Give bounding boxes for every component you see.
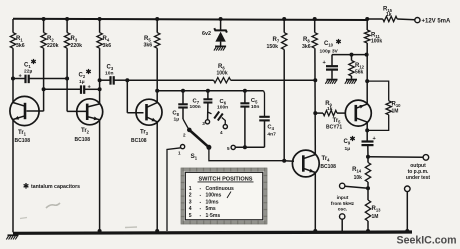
wire R7 down to Tr4 base node [283,50,285,161]
node R11/C10/R12 junction [365,53,369,57]
node C9/R14/output junction [366,155,370,159]
wire Tr1 emitter to rail [12,119,14,232]
svg-text:R13: R13 [372,206,382,213]
wire R3 down to Tr2 base node [66,48,68,111]
svg-text:R8: R8 [303,37,310,44]
node Tr3 collector / cap bus junction [155,89,159,93]
switch S1 contact 4 [223,125,227,129]
wire timing capacitor bus [157,90,263,92]
wire input 2 to rail [341,219,343,232]
svg-text:osc.: osc. [338,208,348,213]
wire R15 to +12V terminal [397,18,415,21]
svg-text:1M: 1M [372,214,379,220]
wire C3 to Tr3 base tee [114,79,128,81]
svg-text:100µ 3V: 100µ 3V [320,49,339,55]
svg-text:100k: 100k [371,39,382,45]
svg-text:Tr4: Tr4 [322,156,331,163]
wire to input terminal [345,186,368,188]
svg-text:56k: 56k [355,70,364,76]
svg-text:3k6: 3k6 [302,44,311,50]
node top rail junction R4 [98,17,102,21]
svg-text:4: 4 [189,206,192,212]
wire Tr5 emitter up to decoupling node [366,55,368,105]
svg-text:3k6: 3k6 [103,43,112,49]
svg-text:S1: S1 [191,153,198,161]
node R2/C2 junction [42,87,46,91]
svg-text:BCY71: BCY71 [326,125,342,131]
svg-text:10n: 10n [251,104,259,110]
svg-text:10n: 10n [105,71,113,77]
terminal input 2 [340,214,345,219]
svg-text:from 5kHz: from 5kHz [331,201,355,207]
wire Tr2 emitter to rail [99,120,101,233]
svg-text:+: + [373,136,377,142]
switch positions table box [181,168,267,224]
resistor R4 [99,19,101,33]
wire contact 1 to ground rail [167,148,181,231]
svg-text:C8: C8 [172,111,179,118]
resistor R7 [283,19,285,33]
capacitor C3 10n [100,79,111,81]
resistor R6 100k [214,78,231,83]
svg-text:R3: R3 [71,36,78,43]
svg-text:R4: R4 [103,36,110,43]
svg-text:5: 5 [227,146,230,151]
svg-text:100k: 100k [217,71,228,77]
wire R11 to decoupling node [366,43,368,55]
svg-text:3k6: 3k6 [16,43,25,49]
svg-text:Tr1: Tr1 [18,130,27,137]
wire top supply rail [13,19,367,20]
svg-text:100n: 100n [190,104,201,110]
terminal output 1 [423,155,429,161]
svg-text:-: - [200,199,202,205]
wire Tr4 emitter to rail [314,172,316,232]
resistor R12 56k [350,53,354,57]
note tantalum capacitors [25,183,27,189]
node top rail junction R2 [42,17,46,21]
svg-text:1µ: 1µ [174,117,180,123]
node R6/R8 junction [313,78,317,82]
transistor Tr3 BC108 [136,99,162,125]
wire to output terminal [368,156,423,159]
resistor R15 [367,18,383,20]
resistor R1 [12,19,14,33]
svg-text:Continuous: Continuous [206,186,234,192]
node R4/C3 junction [98,78,102,82]
transistor Tr4 BC108 [292,150,319,177]
node C5 bottom junction [243,145,247,149]
capacitor C4 4n7 [264,91,265,117]
svg-text:under test: under test [406,175,431,181]
scan smudge under box [20,218,27,219]
node R7 / wiper / Tr4 base junction [282,159,286,163]
node R8/R9 junction [313,111,317,115]
wire C1 to Tr2 base node [29,78,67,80]
svg-text:+12V 5mA: +12V 5mA [422,19,452,25]
scan smudge mid [125,226,137,229]
svg-text:1µ: 1µ [345,146,351,152]
wire bottom ground rail [13,232,412,233]
svg-text:SWITCH POSITIONS: SWITCH POSITIONS [198,176,252,182]
svg-text:R14: R14 [352,167,362,174]
capacitor C8 1u [181,89,185,93]
svg-text:3: 3 [189,199,192,205]
ground R12 earth symbol [346,79,357,81]
switch S1 wiper arm [187,128,192,133]
switch S1 contact 3 [205,120,209,124]
ground zener earth symbol [215,45,226,47]
wire output 2 to rail [406,192,408,233]
node R14/R13/input junction [366,186,370,190]
svg-text:R7: R7 [273,37,280,44]
capacitor C9 1u tantalum [362,140,374,142]
svg-text:3: 3 [202,121,205,126]
capacitor C10 100u 3V [331,55,333,67]
wire R2 down to Tr1 base node [43,48,45,111]
wire R6 line to R8 node [127,79,213,81]
svg-text:100n: 100n [217,105,228,111]
node C1/R3 junction [65,77,69,81]
svg-text:5: 5 [189,213,192,219]
svg-text:input: input [337,195,349,201]
node top rail junction R5 [155,17,159,21]
svg-text:C4: C4 [267,125,274,132]
svg-text:1µ: 1µ [79,79,85,85]
wire contact 5 to C5/C4 [235,146,264,148]
wire R1 to Tr1 collector [12,48,14,103]
ground C10 earth symbol [327,79,338,81]
wire R4 down to Tr2 collector [99,48,101,104]
svg-text:R6: R6 [218,64,225,71]
svg-text:C5: C5 [251,98,258,105]
svg-text:-: - [200,186,202,192]
svg-text:10ms: 10ms [206,199,219,205]
svg-text:C3: C3 [107,65,114,72]
svg-text:SeekIC.com: SeekIC.com [397,235,457,247]
svg-text:C2: C2 [79,73,86,80]
terminal output 2 [405,186,411,192]
svg-text:220k: 220k [47,43,59,49]
svg-text:C9: C9 [344,139,351,146]
wire Tr3 emitter to rail [156,122,158,233]
node top rail junction R7 [282,17,286,21]
node collector/R10 junction [365,128,369,132]
node top rail junction R11 [365,17,369,21]
resistor R11 [366,19,368,30]
svg-text:2: 2 [189,193,192,199]
resistor R14 10k [367,157,369,163]
svg-text:BC108: BC108 [320,164,336,170]
svg-text:6v2: 6v2 [202,31,211,37]
capacitor C6 100n (diagonal) [208,112,212,114]
terminal +12V [415,18,420,23]
capacitor C7 100n [206,89,210,93]
svg-text:tantalum capacitors: tantalum capacitors [31,184,80,190]
capacitor C5 10n [243,89,247,93]
wire decoupling bus [332,54,367,56]
transistor Tr1 BC108 [10,96,39,125]
svg-text:1k: 1k [386,12,392,18]
svg-text:100ms: 100ms [206,193,222,199]
capacitor C1 22u tantalum [13,78,26,80]
switch S1 contact 1 [181,145,185,149]
svg-text:150k: 150k [267,44,279,50]
svg-text:-: - [200,206,202,212]
svg-text:3k6: 3k6 [144,43,153,49]
node top rail junction R3 [65,17,69,21]
svg-text:C10: C10 [324,41,334,48]
scan smudge left [46,203,60,208]
svg-text:BC108: BC108 [131,138,147,144]
resistor R3 [66,19,68,33]
svg-text:220k: 220k [71,43,83,49]
resistor R8 [314,19,316,33]
svg-text:1·5ms: 1·5ms [206,213,221,219]
wire Tr5 collector down [366,122,368,141]
svg-text:1: 1 [178,151,181,156]
wire C2 to Tr2 collector node [84,88,99,90]
resistor R10 1M [367,81,389,101]
svg-text:1k: 1k [327,106,333,112]
ground bottom-left earth symbol [8,234,19,236]
node R10 branch [365,79,369,83]
capacitor C2 1u tantalum [44,88,81,90]
terminal input 1 [340,183,345,188]
node C2/R4 junction [98,87,102,91]
svg-text:C1: C1 [24,63,31,70]
svg-text:R2: R2 [47,36,54,43]
node top rail junction R8 [313,17,317,21]
svg-text:BC108: BC108 [75,137,91,143]
svg-text:-: - [200,193,202,199]
svg-text:R10: R10 [392,102,402,109]
node top rail junction zener [219,17,223,21]
svg-text:-: - [200,213,202,219]
wire R8 down to Tr4 collector [314,48,316,154]
svg-text:4n7: 4n7 [267,132,276,138]
switch S1 contact 5 [231,145,235,149]
svg-text:Tr3: Tr3 [140,130,149,137]
wire R5 down to Tr3 collector [156,48,158,103]
zener diode 6v2 [220,19,222,30]
wire Tr3 base drop [126,80,128,113]
svg-text:1: 1 [189,186,192,192]
svg-text:Tr2: Tr2 [81,128,90,135]
svg-text:R1: R1 [16,36,23,43]
svg-text:BC108: BC108 [15,138,31,144]
transistor Tr2 BC108 [77,99,103,125]
svg-text:1M: 1M [392,109,399,115]
svg-text:+: + [323,60,327,66]
svg-text:2: 2 [183,133,186,138]
node Tr3 base tee [125,78,129,82]
node Tr1 collector / C1 junction [11,77,15,81]
svg-text:10k: 10k [354,175,363,181]
resistor R5 [156,19,158,33]
resistor R9 1k [315,112,323,114]
resistor R13 1M [365,200,370,221]
svg-text:22µ: 22µ [24,69,32,75]
wire wiper to Tr4 base node [209,147,284,160]
svg-text:4: 4 [220,130,223,135]
resistor R2 [43,19,45,33]
transistor Tr5 BCY71 [345,100,371,126]
svg-text:5ms: 5ms [206,206,216,212]
